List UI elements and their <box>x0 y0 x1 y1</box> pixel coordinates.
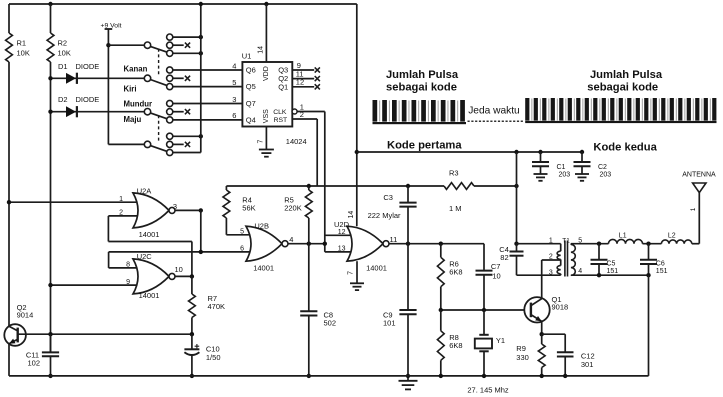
node +9V feed / SW1 pole <box>106 43 110 47</box>
ground U1 pin7 <box>259 150 274 157</box>
label sebagai kode 2 <box>587 82 658 94</box>
U1 value 14024 <box>286 137 307 146</box>
wire RC rail right segment <box>474 185 517 187</box>
svg-text:D1: D1 <box>58 62 68 71</box>
node rail/S1 bottom <box>199 51 203 55</box>
node Q2 base / R7 / C10 <box>190 332 194 336</box>
node L1/L2/C6 <box>646 242 650 246</box>
svg-text:C7: C7 <box>491 262 501 271</box>
label Jumlah Pulsa 2 <box>590 69 663 81</box>
wire CLK vertical to U2D inputs <box>324 112 326 252</box>
node R6/R8/base <box>439 308 443 312</box>
wire U1 pin7 VSS <box>265 127 267 150</box>
resistor R5 <box>284 186 312 244</box>
svg-text:R1: R1 <box>17 39 27 48</box>
wire +9V feed vertical <box>107 29 109 144</box>
gate U2A (NOR 14001) <box>133 186 175 239</box>
node U2D input tie <box>323 242 327 246</box>
pin label 5 (U1) <box>232 78 236 87</box>
svg-text:13: 13 <box>338 245 346 252</box>
svg-text:L2: L2 <box>668 232 676 239</box>
gate U2C (NOR 14001) <box>133 252 175 300</box>
svg-text:301: 301 <box>581 360 594 369</box>
U1 VSS label <box>263 109 270 123</box>
capacitor C12 <box>557 334 595 376</box>
capacitor C9 <box>383 244 417 376</box>
node Kode rail / C2 <box>580 150 584 154</box>
svg-text:220K: 220K <box>284 204 302 213</box>
label Jeda waktu <box>468 105 520 116</box>
svg-text:10K: 10K <box>58 49 71 58</box>
svg-text:C6: C6 <box>656 261 665 268</box>
node Q2 base / C11 <box>48 332 52 336</box>
resistor R2 <box>47 33 71 62</box>
svg-text:330: 330 <box>516 353 529 362</box>
svg-text:DIODE: DIODE <box>76 95 100 104</box>
label 27.145 Mhz <box>467 385 509 394</box>
svg-text:Jumlah Pulsa: Jumlah Pulsa <box>590 69 663 81</box>
wire U2A output vertical <box>200 210 202 252</box>
U1 CLK label <box>273 109 287 116</box>
node Y1 / bottom rail <box>482 374 486 378</box>
node C5 / pin4 row <box>597 273 601 277</box>
pin label 1 (antenna) <box>690 207 697 211</box>
node RC rail / C3 column <box>406 184 410 188</box>
svg-text:1/50: 1/50 <box>206 353 221 362</box>
node C8 / bottom rail <box>307 374 311 378</box>
wire Q1 emitter <box>541 321 543 334</box>
svg-text:102: 102 <box>28 359 41 368</box>
transistor Q1 <box>524 295 568 322</box>
node C3/C9 column / U2D out <box>406 242 410 246</box>
svg-text:3: 3 <box>232 95 236 104</box>
label Jumlah Pulsa 1 <box>386 69 459 81</box>
svg-text:14001: 14001 <box>139 291 160 300</box>
svg-text:U1: U1 <box>242 52 252 61</box>
svg-text:203: 203 <box>559 171 571 178</box>
svg-text:3: 3 <box>549 270 553 277</box>
wire U2A pin2 feedback <box>108 216 191 277</box>
wire S4 bottom contact to rail <box>173 152 201 154</box>
no-connect X S2 <box>185 76 190 81</box>
svg-text:14001: 14001 <box>139 230 160 239</box>
wire R2 column <box>50 4 52 352</box>
node R2 column / D2 <box>48 110 52 114</box>
wire pin6 row to pin8 <box>109 252 252 268</box>
node U2A output corner <box>199 208 203 212</box>
svg-text:5: 5 <box>578 237 582 244</box>
node C12 / bottom rail <box>563 374 567 378</box>
node Kode rail / T1 feed vertical <box>514 150 518 154</box>
resistor R9 <box>516 334 545 376</box>
wire T1 pin1 row <box>517 237 561 244</box>
svg-text:C3: C3 <box>383 193 393 202</box>
wire T1 pin2 row <box>549 254 553 261</box>
svg-text:C2: C2 <box>598 164 607 171</box>
svg-text:CLK: CLK <box>273 109 287 116</box>
svg-text:14024: 14024 <box>286 137 307 146</box>
diode D2 <box>58 95 99 117</box>
capacitor C8 <box>300 244 336 376</box>
node top rail / switch rail <box>199 2 203 6</box>
capacitor C7 <box>476 262 501 310</box>
pin label 7 (U1) <box>257 139 264 143</box>
svg-text:Y1: Y1 <box>496 336 505 345</box>
ground C1 <box>534 174 548 181</box>
svg-text:222 Mylar: 222 Mylar <box>368 211 401 220</box>
IC U1 box <box>242 52 293 127</box>
wire D1 row <box>51 77 145 79</box>
gate U2D (NOR 14001) <box>334 220 389 273</box>
node R2 column / D1 <box>48 76 52 80</box>
svg-text:56K: 56K <box>242 204 255 213</box>
wire Q1 collector <box>542 260 561 299</box>
pin label 14 (U2D VDD) <box>348 211 355 219</box>
svg-text:151: 151 <box>607 268 619 275</box>
wire U2A pin2 input <box>108 210 141 217</box>
switch S3 Mundur/Maju <box>144 100 172 123</box>
svg-text:5: 5 <box>232 78 236 87</box>
wire L1-L2 <box>643 243 662 245</box>
svg-text:R9: R9 <box>516 344 526 353</box>
wire U2D pin7 VSS <box>356 261 358 283</box>
svg-text:1: 1 <box>690 207 697 211</box>
svg-text:4: 4 <box>578 268 582 275</box>
node pin5 row / C5 <box>597 242 601 246</box>
pin label 6 (U1) <box>232 111 236 120</box>
node T1 feed / pin1 row <box>514 242 518 246</box>
capacitor C1 <box>532 152 570 178</box>
svg-text:2: 2 <box>300 110 304 119</box>
svg-text:6K8: 6K8 <box>449 341 462 350</box>
wire U2D pin13 input <box>325 245 353 252</box>
svg-text:8: 8 <box>126 262 130 269</box>
jeda dashed baseline <box>468 120 524 122</box>
svg-text:14001: 14001 <box>366 264 387 273</box>
node R5 column / U2B out <box>307 242 311 246</box>
wire U2C output pin10 <box>175 265 192 277</box>
svg-text:9014: 9014 <box>17 310 34 319</box>
label sebagai kode 1 <box>386 82 457 94</box>
svg-text:D2: D2 <box>58 95 68 104</box>
inductor L1 <box>609 232 643 243</box>
svg-text:Kiri: Kiri <box>124 84 137 93</box>
svg-text:6: 6 <box>240 245 244 252</box>
svg-text:7: 7 <box>348 271 355 275</box>
pulse train 1 (kode pertama) <box>373 100 467 124</box>
wire S3 top contact to U1 pin3 <box>173 103 243 105</box>
wire U1 pin14 VDD <box>265 4 267 62</box>
pulse train 2 (kode kedua) <box>525 98 716 123</box>
wire left rail (R1/Q2 column) <box>8 4 10 376</box>
svg-text:ANTENNA: ANTENNA <box>682 171 716 178</box>
svg-text:VDD: VDD <box>263 66 270 81</box>
no-connect X pin12 <box>315 84 320 89</box>
switch S1 (ganged encoder switch, top) <box>144 34 172 56</box>
wire U2D output pin11 <box>389 235 484 244</box>
svg-text:1 M: 1 M <box>449 204 462 213</box>
node C11 / bottom rail <box>48 374 52 378</box>
node top rail / U1 pin14 <box>264 2 268 6</box>
wire U1 pin9 n.c. <box>292 61 314 70</box>
wire U2C pin9 input <box>51 279 142 286</box>
U1 CLK bubble <box>292 109 297 114</box>
capacitor C10 (electrolytic) <box>184 334 220 376</box>
resistor R4 <box>223 186 256 235</box>
wire U2A output pin3 <box>173 202 201 211</box>
svg-text:4: 4 <box>289 235 293 244</box>
ganged link S1-S2 (dashed) <box>158 49 160 77</box>
node C9 / bottom rail <box>406 374 410 378</box>
svg-text:U2A: U2A <box>137 186 152 195</box>
inductor L2 <box>661 232 691 243</box>
wire U1 pin2 RST <box>292 110 317 119</box>
resistor R3 <box>444 168 474 213</box>
U1 pin names left <box>246 66 256 125</box>
svg-text:14: 14 <box>258 46 265 54</box>
svg-text:Maju: Maju <box>124 115 142 124</box>
transistor Q2 <box>4 303 33 346</box>
label Kiri <box>124 84 137 93</box>
wire SW4 pole <box>108 143 144 145</box>
node rail/S4 top <box>199 134 203 138</box>
no-connect X S1 <box>185 43 190 48</box>
svg-text:Q3: Q3 <box>278 66 288 75</box>
node C6 / pin4 row / ground return <box>646 273 650 277</box>
capacitor C6 <box>640 244 668 276</box>
ground main rail <box>399 376 418 390</box>
svg-text:502: 502 <box>324 318 337 327</box>
node emitter / R9 / C12 <box>540 332 544 336</box>
switch S4 (ganged encoder switch, bottom) <box>144 133 172 155</box>
svg-text:C1: C1 <box>557 164 566 171</box>
U1 VDD label <box>263 66 270 81</box>
wire S2 top contact to U1 pin4 <box>173 69 243 71</box>
svg-text:Mundur: Mundur <box>124 100 153 109</box>
svg-text:Kanan: Kanan <box>124 64 148 73</box>
pin label 14 (U1) <box>258 46 265 54</box>
no-connect X pin9 <box>315 67 320 72</box>
pin label 3 (U1) <box>232 95 236 104</box>
U1 pin names right <box>278 66 288 92</box>
wire S4 top contact to rail <box>173 135 201 137</box>
svg-text:10K: 10K <box>17 49 30 58</box>
capacitor C11 <box>26 334 59 376</box>
svg-text:U2D: U2D <box>334 220 350 229</box>
svg-text:5: 5 <box>240 228 244 235</box>
node top rail / R2 <box>48 2 52 6</box>
svg-text:82: 82 <box>500 253 508 262</box>
resistor R8 <box>437 310 462 376</box>
svg-text:Kode pertama: Kode pertama <box>387 139 462 151</box>
svg-text:4: 4 <box>232 61 236 70</box>
node R6 column / U2D out <box>439 242 443 246</box>
svg-text:Q4: Q4 <box>246 116 256 125</box>
svg-text:2: 2 <box>549 254 553 261</box>
capacitor C4 <box>499 244 523 276</box>
transformer T1 primary <box>557 238 570 276</box>
diode D1 <box>58 62 99 84</box>
wire U2B output pin4 <box>288 235 325 244</box>
label Mundur <box>124 100 153 109</box>
wire U2B pin6 label <box>240 245 244 252</box>
node left rail / pin1 <box>7 200 11 204</box>
svg-text:203: 203 <box>600 171 612 178</box>
wire U2C pin8 input <box>109 262 141 269</box>
wire T1 pin4 row <box>571 268 649 275</box>
wire Kode pertama rail <box>357 151 582 153</box>
wire bottom ground rail <box>9 375 649 377</box>
node R2 column / pin9 <box>48 283 52 287</box>
resistor R6 <box>437 244 462 310</box>
wire U2D pin12 input <box>325 229 353 236</box>
wire U1 pin11 n.c. <box>292 69 314 78</box>
ground C2 <box>575 174 589 181</box>
svg-text:Jumlah Pulsa: Jumlah Pulsa <box>386 69 459 81</box>
node C10 / bottom rail <box>190 374 194 378</box>
svg-text:6K8: 6K8 <box>449 267 462 276</box>
svg-text:11: 11 <box>390 235 398 244</box>
label Kanan <box>124 64 148 73</box>
U1 RST label <box>274 117 288 124</box>
svg-text:C5: C5 <box>607 261 616 268</box>
svg-text:14: 14 <box>348 211 355 219</box>
capacitor C3 <box>368 186 417 244</box>
pin label 4 (U1) <box>232 61 236 70</box>
svg-text:RST: RST <box>274 117 288 124</box>
svg-text:7: 7 <box>257 139 264 143</box>
wire L2 to antenna <box>692 183 700 244</box>
wire RST vertical to RC line <box>316 119 318 186</box>
wire emitter to C12 <box>542 333 566 335</box>
node U2A-out vertical / pin6 row <box>199 250 203 254</box>
svg-text:U2B: U2B <box>254 222 269 231</box>
svg-text:VSS: VSS <box>263 109 270 123</box>
wire Q1 base row <box>441 309 531 311</box>
wire RC top rail <box>226 185 444 187</box>
svg-text:10: 10 <box>175 265 183 274</box>
ground U2D pin7 <box>350 283 364 290</box>
wire U2A pin1 input <box>9 196 141 203</box>
svg-text:14001: 14001 <box>253 263 274 272</box>
wire S1 top contact to rail <box>173 36 201 38</box>
wire +9V top rail <box>9 3 357 5</box>
wire D2 row <box>51 111 145 113</box>
svg-text:151: 151 <box>656 268 668 275</box>
svg-text:12: 12 <box>296 78 304 87</box>
svg-text:27. 145 Mhz: 27. 145 Mhz <box>467 385 509 394</box>
svg-text:L1: L1 <box>619 232 627 239</box>
svg-text:R3: R3 <box>449 168 459 177</box>
wire Q2 base row <box>18 333 192 335</box>
wire T1 pin3 row <box>517 270 561 277</box>
no-connect X S4 <box>185 142 190 147</box>
wire U1 pin12 n.c. <box>292 78 314 87</box>
node U2C output / R7 / feedback <box>190 274 194 278</box>
wire S1 bottom contact to rail <box>173 52 201 54</box>
ganged link S3-S4 (dashed) <box>158 115 160 142</box>
svg-text:101: 101 <box>383 318 396 327</box>
wire S3 bottom contact to U1 pin6 <box>173 119 243 121</box>
node RC rail / R5 <box>307 184 311 188</box>
no-connect X S3 <box>185 109 190 114</box>
transformer T1 core <box>565 241 568 277</box>
node rail/S1 top <box>199 35 203 39</box>
node C7 / base row <box>482 308 486 312</box>
svg-text:Q7: Q7 <box>246 99 256 108</box>
svg-text:Q1: Q1 <box>278 83 288 92</box>
svg-text:R2: R2 <box>58 39 68 48</box>
no-connect X pin11 <box>315 76 320 81</box>
svg-text:9: 9 <box>126 279 130 286</box>
svg-text:470K: 470K <box>208 302 226 311</box>
svg-text:T1: T1 <box>562 238 570 245</box>
wire T1 feed vertical <box>516 152 518 244</box>
resistor R1 <box>6 33 30 62</box>
+9 Volt supply label <box>101 23 122 30</box>
wire ground return right <box>648 275 650 376</box>
wire switch common rail <box>200 4 202 153</box>
capacitor C2 <box>574 152 612 178</box>
wire U1 pin1 CLK <box>297 102 325 111</box>
wire S1 mid contact n.c. <box>173 44 184 46</box>
svg-text:6: 6 <box>232 111 236 120</box>
resistor R7 <box>189 276 226 334</box>
svg-text:1: 1 <box>549 237 553 244</box>
switch S2 Kanan/Kiri <box>144 67 172 90</box>
capacitor C5 <box>591 244 619 276</box>
antenna <box>682 171 716 192</box>
wire U2B pin5 input <box>226 228 252 235</box>
node R8 / bottom rail <box>439 374 443 378</box>
svg-text:Q6: Q6 <box>246 66 256 75</box>
svg-text:DIODE: DIODE <box>76 62 100 71</box>
svg-text:2: 2 <box>119 210 123 217</box>
transformer T1 secondary <box>571 244 575 276</box>
wire +9V right vertical <box>356 4 358 226</box>
svg-text:12: 12 <box>338 229 346 236</box>
svg-text:Q5: Q5 <box>246 82 256 91</box>
svg-text:Kode kedua: Kode kedua <box>593 141 657 153</box>
pin label 7 (U2D) <box>348 271 355 275</box>
svg-text:Jeda waktu: Jeda waktu <box>468 105 520 116</box>
wire T1 pin5 row <box>571 237 609 244</box>
wire S2 mid contact n.c. <box>173 77 184 79</box>
label Kode pertama <box>387 139 462 151</box>
wire S4 mid contact n.c. <box>173 143 184 145</box>
svg-text:1: 1 <box>119 196 123 203</box>
label Kode kedua <box>593 141 657 153</box>
svg-text:10: 10 <box>492 272 500 281</box>
node RC rail / T1 feed <box>514 184 518 188</box>
svg-text:sebagai kode: sebagai kode <box>587 82 658 94</box>
svg-text:sebagai kode: sebagai kode <box>386 82 457 94</box>
svg-text:3: 3 <box>173 202 177 211</box>
node +9V vertical / Kode pertama rail <box>355 150 359 154</box>
svg-text:U2C: U2C <box>137 252 153 261</box>
wire C7 feed corner <box>483 244 485 270</box>
wire SW1 pole <box>108 44 144 46</box>
svg-text:9018: 9018 <box>552 303 569 312</box>
label Maju <box>124 115 142 124</box>
node Kode rail / C1 <box>538 150 542 154</box>
node R9 / bottom rail <box>540 374 544 378</box>
gate U2B (NOR 14001) <box>246 222 288 273</box>
crystal Y1 <box>475 310 505 376</box>
wire S3 mid contact n.c. <box>173 111 184 113</box>
wire S2 bottom contact to U1 pin5 <box>173 86 243 88</box>
